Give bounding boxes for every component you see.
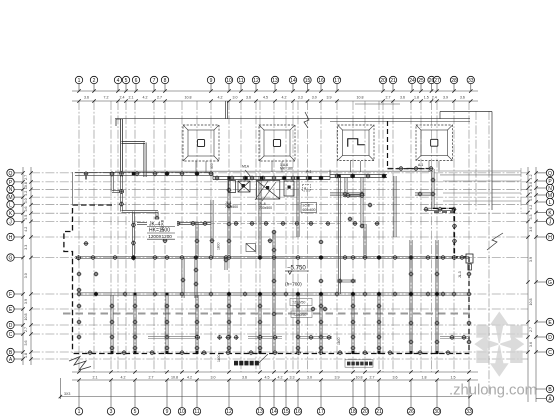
rotated small labels [161, 163, 463, 362]
svg-text:L: L [9, 203, 12, 209]
svg-text:21: 21 [376, 409, 382, 415]
svg-text:1800: 1800 [337, 337, 341, 345]
svg-text:Q: Q [9, 171, 13, 177]
svg-text:12: 12 [253, 78, 259, 84]
bottom axis bubbles [75, 408, 472, 415]
svg-text:6: 6 [135, 78, 138, 84]
building right boundary (dashed) [388, 121, 470, 354]
svg-text:2.4: 2.4 [120, 95, 125, 99]
svg-text:(h=700): (h=700) [285, 282, 302, 288]
bottom centre title (CJK rendered as blobs) [234, 361, 259, 366]
top axis bubbles [75, 76, 474, 83]
svg-text:10.8: 10.8 [185, 95, 192, 99]
svg-text:11: 11 [238, 78, 243, 84]
svg-text:3.0: 3.0 [24, 198, 28, 203]
svg-text:10.8: 10.8 [171, 376, 178, 380]
svg-text:3X3: 3X3 [64, 392, 70, 396]
svg-text:2.7: 2.7 [149, 376, 154, 380]
svg-text:1.8: 1.8 [414, 95, 419, 99]
bottom dimension numbers [93, 376, 456, 380]
building left boundary (dashed) [64, 205, 112, 353]
vertical grid lines [79, 101, 521, 396]
svg-text:4.2: 4.2 [282, 95, 287, 99]
svg-text:3: 3 [110, 409, 113, 415]
pile cap ZJ1 [183, 125, 219, 161]
bottom-left break zigzag [69, 357, 91, 371]
svg-text:15: 15 [305, 78, 311, 84]
svg-text:14: 14 [290, 78, 296, 84]
svg-text:2.7: 2.7 [24, 327, 28, 332]
svg-text:3.0: 3.0 [529, 182, 533, 187]
svg-text:10: 10 [226, 78, 232, 84]
svg-text:33: 33 [466, 409, 472, 415]
svg-text:4.2: 4.2 [278, 376, 283, 380]
svg-text:13: 13 [272, 78, 278, 84]
svg-text:14: 14 [271, 409, 277, 415]
left wing walls [112, 190, 124, 192]
right corner dashed jog [433, 208, 455, 257]
svg-text:18: 18 [350, 409, 356, 415]
svg-text:3.6: 3.6 [393, 376, 398, 380]
svg-text:13: 13 [257, 409, 263, 415]
svg-text:4.2: 4.2 [218, 95, 223, 99]
svg-text:4.5: 4.5 [263, 95, 268, 99]
svg-text:20: 20 [362, 409, 368, 415]
svg-text:D: D [548, 335, 552, 341]
upper-mid verticals [259, 176, 261, 258]
svg-text:JL-3: JL-3 [458, 271, 462, 278]
svg-text:7: 7 [153, 78, 156, 84]
svg-text:12: 12 [226, 409, 232, 415]
building bottom boundary (dashed) [74, 353, 469, 355]
svg-text:3.6: 3.6 [529, 189, 533, 194]
svg-text:D: D [9, 323, 13, 329]
svg-text:3.6: 3.6 [460, 95, 465, 99]
svg-text:H: H [9, 235, 13, 241]
svg-text:G: G [548, 280, 552, 286]
svg-text:1500KB: 1500KB [161, 219, 165, 232]
svg-text:2: 2 [93, 78, 96, 84]
top axis stems [79, 84, 471, 91]
svg-text:17: 17 [334, 78, 340, 84]
elevation -5.750 annotation [287, 265, 306, 272]
svg-text:1800: 1800 [217, 354, 221, 362]
svg-text:1.8: 1.8 [24, 353, 28, 358]
svg-text:10.8: 10.8 [24, 314, 28, 321]
pile cap ZJ4 [416, 125, 453, 161]
svg-text:30: 30 [434, 409, 440, 415]
svg-text:G: G [9, 255, 13, 261]
svg-text:3.9: 3.9 [529, 257, 533, 262]
svg-text:2.7: 2.7 [386, 95, 391, 99]
pile cap ZJ2 [259, 125, 295, 161]
svg-text:26: 26 [408, 409, 414, 415]
svg-text:3.0: 3.0 [312, 95, 317, 99]
svg-text:M1A: M1A [242, 164, 250, 168]
left dimension numbers (rotated) [24, 175, 28, 358]
entrance detail boxes [229, 181, 295, 200]
svg-text:3.6: 3.6 [529, 342, 533, 347]
svg-text:JC-8: JC-8 [303, 204, 310, 208]
svg-text:.zhulong.com: .zhulong.com [449, 383, 537, 399]
svg-text:16: 16 [295, 409, 301, 415]
svg-text:5: 5 [125, 78, 128, 84]
svg-text:3.9: 3.9 [327, 95, 332, 99]
svg-text:N: N [9, 187, 13, 193]
row J wall [137, 222, 211, 224]
svg-text:25: 25 [418, 78, 424, 84]
svg-text:4.2: 4.2 [529, 205, 533, 210]
left axis ticks [21, 171, 32, 361]
svg-text:2.7: 2.7 [157, 95, 162, 99]
title leader line [258, 354, 268, 364]
svg-text:4.2: 4.2 [121, 376, 126, 380]
svg-text:3.6: 3.6 [246, 95, 251, 99]
svg-text:9: 9 [166, 409, 169, 415]
svg-text:A-1: A-1 [306, 170, 311, 174]
svg-text:10: 10 [179, 409, 185, 415]
svg-text:M: M [548, 193, 552, 199]
label leaders [245, 170, 276, 201]
svg-text:3.9: 3.9 [335, 376, 340, 380]
main wall row Q (stepped) [75, 172, 213, 175]
svg-text:7.2: 7.2 [104, 95, 109, 99]
svg-text:10.8: 10.8 [356, 376, 363, 380]
svg-text:3.9: 3.9 [443, 95, 448, 99]
svg-text:TZ80/50: TZ80/50 [292, 301, 305, 305]
svg-text:10.8: 10.8 [529, 299, 533, 306]
row G wall [75, 256, 469, 258]
svg-text:4.2: 4.2 [187, 376, 192, 380]
svg-text:16: 16 [318, 78, 324, 84]
top axis ticks [77, 89, 472, 102]
svg-text:2.7: 2.7 [24, 175, 28, 180]
svg-text:MK=180: MK=180 [280, 166, 293, 170]
svg-text:Q: Q [548, 171, 552, 177]
svg-text:15: 15 [283, 409, 289, 415]
svg-text:20: 20 [380, 78, 386, 84]
left axis stems [14, 173, 23, 359]
bottom dimension lines [72, 372, 478, 380]
svg-text:28: 28 [451, 78, 457, 84]
svg-text:4: 4 [117, 78, 120, 84]
svg-text:4.2: 4.2 [24, 191, 28, 196]
svg-text:4.2: 4.2 [143, 95, 148, 99]
svg-text:24: 24 [409, 78, 415, 84]
bottom axis ticks [77, 370, 470, 381]
svg-text:F: F [9, 292, 12, 298]
svg-text:3.6: 3.6 [24, 206, 28, 211]
svg-text:21: 21 [390, 78, 396, 84]
small pit detail [246, 244, 256, 252]
svg-text:9: 9 [210, 78, 213, 84]
svg-text:27: 27 [434, 78, 440, 84]
right dimension numbers (rotated) [529, 174, 533, 347]
svg-text:3.3: 3.3 [298, 95, 303, 99]
break mark right [487, 233, 503, 250]
JK-4 annotation box [147, 220, 177, 240]
svg-text:C: C [9, 332, 13, 338]
break mark on top line [304, 112, 309, 128]
right axis stems [536, 173, 546, 352]
watermark logo pinwheel [474, 312, 524, 377]
top dimension lines [72, 91, 478, 104]
left dimension lines [23, 167, 31, 365]
svg-text:600x600: 600x600 [303, 208, 316, 212]
svg-text:1.8: 1.8 [422, 376, 427, 380]
svg-text:1: 1 [78, 78, 81, 84]
svg-text:TZ80/50: TZ80/50 [293, 313, 306, 317]
bottom total dimension line [60, 396, 470, 398]
svg-text:1.5: 1.5 [451, 376, 456, 380]
svg-text:17: 17 [318, 409, 324, 415]
svg-text:3.3: 3.3 [290, 376, 295, 380]
svg-text:3.0: 3.0 [529, 227, 533, 232]
small beam labels [225, 163, 423, 210]
svg-text:L: L [549, 200, 552, 206]
svg-text:10.8: 10.8 [24, 182, 28, 189]
left pile dot column [77, 272, 99, 340]
svg-text:1800: 1800 [217, 242, 221, 250]
svg-text:3.6: 3.6 [400, 95, 405, 99]
svg-text:2.7: 2.7 [370, 376, 375, 380]
svg-text:H: H [548, 235, 552, 241]
svg-text:3.3: 3.3 [529, 214, 533, 219]
svg-text:5: 5 [134, 409, 137, 415]
svg-text:8: 8 [164, 78, 167, 84]
stair shaft walls [116, 119, 146, 177]
right wing walls [432, 169, 434, 209]
beam dashed line [63, 312, 470, 314]
svg-text:4.2: 4.2 [24, 227, 28, 232]
row F wall [78, 293, 469, 295]
svg-text:3.6: 3.6 [84, 95, 89, 99]
svg-text:3.3: 3.3 [24, 245, 28, 250]
svg-text:700x500: 700x500 [225, 205, 238, 209]
left axis bubbles [7, 169, 14, 362]
right dimension lines [528, 167, 536, 402]
lower wall verticals [111, 295, 113, 353]
svg-text:2.4: 2.4 [432, 95, 437, 99]
svg-text:3.9: 3.9 [24, 299, 28, 304]
top dimension numbers [84, 95, 465, 99]
svg-text:C: C [548, 350, 552, 356]
svg-text:−5.750: −5.750 [287, 265, 306, 272]
bottom axis stems [79, 380, 469, 407]
svg-text:4.2: 4.2 [529, 174, 533, 179]
svg-text:2.1: 2.1 [93, 376, 98, 380]
svg-text:4.5: 4.5 [24, 215, 28, 220]
pile cap ZJ3 [338, 125, 375, 161]
svg-text:A-1: A-1 [418, 163, 423, 167]
TZ note boxes [290, 299, 312, 318]
svg-text:M: M [8, 195, 12, 201]
cap stubs to wall [196, 161, 439, 172]
svg-text:3.0: 3.0 [307, 376, 312, 380]
svg-text:900: 900 [210, 163, 214, 169]
svg-text:2.1: 2.1 [129, 95, 134, 99]
right axis ticks [526, 171, 537, 354]
left edge thin wall [72, 172, 74, 205]
svg-text:4.5: 4.5 [265, 376, 270, 380]
svg-text:3.0: 3.0 [24, 273, 28, 278]
svg-text:1200X1200: 1200X1200 [148, 234, 172, 239]
svg-text:3.0: 3.0 [211, 376, 216, 380]
row y337 stubs [148, 336, 470, 338]
svg-text:700x500: 700x500 [259, 206, 272, 210]
svg-text:1.5: 1.5 [424, 95, 429, 99]
svg-text:3.0: 3.0 [233, 95, 238, 99]
svg-text:1: 1 [78, 409, 81, 415]
svg-text:33: 33 [468, 78, 474, 84]
svg-text:N: N [548, 186, 552, 192]
svg-text:10.8: 10.8 [357, 95, 364, 99]
svg-text:11: 11 [194, 409, 199, 415]
right axis bubbles [546, 169, 553, 402]
horizontal grid lines [31, 173, 528, 359]
svg-text:2.7: 2.7 [529, 327, 533, 332]
svg-text:4.5: 4.5 [529, 196, 533, 201]
svg-text:3.6: 3.6 [242, 376, 247, 380]
svg-text:3.6: 3.6 [24, 341, 28, 346]
right wing lines [440, 171, 521, 201]
building top boundary line [115, 101, 492, 210]
corridor upper edge [115, 170, 433, 172]
